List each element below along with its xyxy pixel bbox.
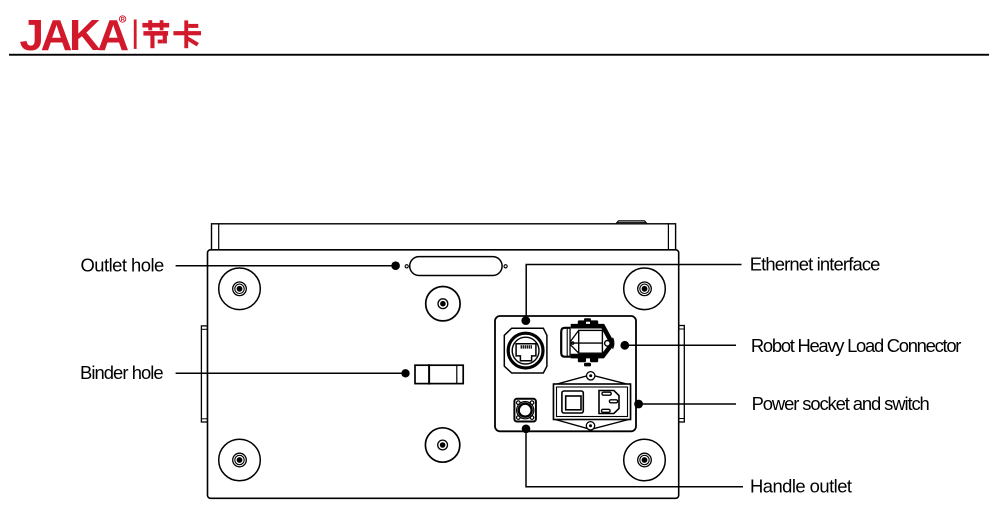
- svg-text:Ethernet interface: Ethernet interface: [750, 253, 880, 274]
- svg-text:JAKA: JAKA: [20, 11, 129, 60]
- svg-text:Handle outlet: Handle outlet: [750, 476, 852, 497]
- svg-text:Power socket and switch: Power socket and switch: [752, 393, 930, 414]
- svg-text:Outlet hole: Outlet hole: [81, 254, 165, 275]
- svg-text:Binder hole: Binder hole: [80, 362, 163, 383]
- svg-text:Robot Heavy Load Connector: Robot Heavy Load Connector: [751, 335, 961, 356]
